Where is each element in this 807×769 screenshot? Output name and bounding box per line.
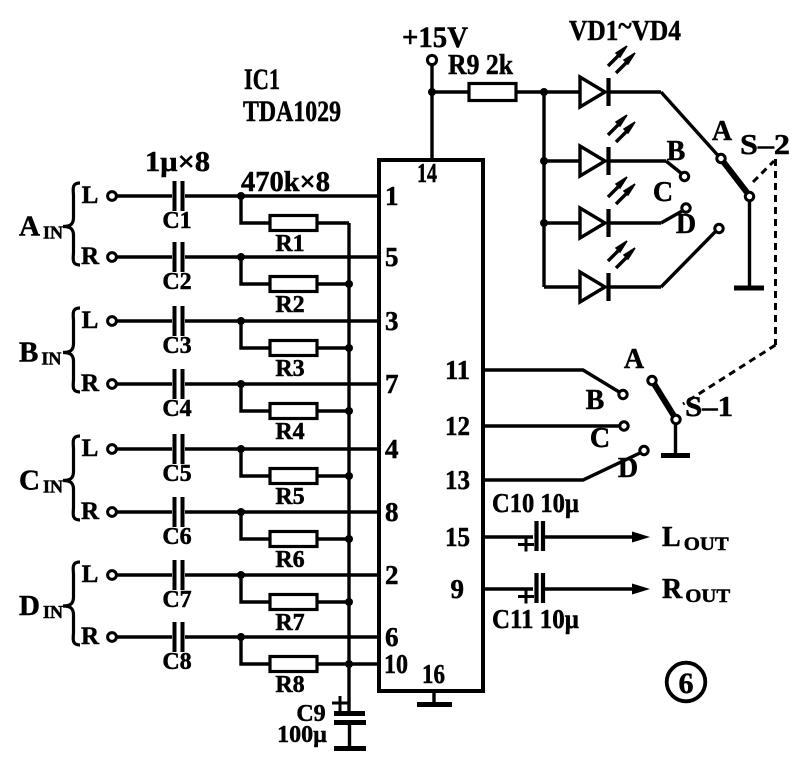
- svg-text:S–2: S–2: [740, 130, 790, 161]
- resistor R2: [270, 277, 317, 319]
- node LED bus VD3: [540, 219, 548, 227]
- wire R1 to bus: [317, 221, 349, 224]
- svg-text:10: 10: [384, 649, 408, 679]
- input terminal CL: [82, 435, 117, 462]
- label TDA1029: [243, 95, 341, 128]
- wire R7 to bus: [317, 600, 349, 603]
- ground under C9: [334, 746, 366, 751]
- label 1u x8: [145, 147, 210, 178]
- node junction BR: [237, 380, 245, 388]
- wire AL row: [117, 194, 380, 197]
- wire tap to R3: [241, 321, 270, 348]
- svg-text:R1: R1: [275, 231, 304, 257]
- resistor R9 2k: [448, 50, 516, 101]
- label S-1: [685, 392, 733, 423]
- input terminal BL: [82, 307, 117, 334]
- switch S-2 pole: [745, 192, 753, 200]
- switch S-1 contact B: [586, 385, 628, 416]
- brace group C: [63, 436, 80, 520]
- wire R5 to bus: [317, 474, 349, 477]
- resistor R6: [270, 532, 317, 574]
- input terminal BR: [81, 370, 116, 397]
- diode VD4 LED: [544, 241, 661, 302]
- capacitor C10: [492, 488, 579, 552]
- svg-text:L: L: [82, 561, 99, 588]
- wire pin 9 to C11: [483, 587, 533, 590]
- brace group D: [63, 562, 80, 645]
- svg-text:12: 12: [445, 411, 470, 441]
- node junction AL: [237, 192, 245, 200]
- wire R3 to bus: [317, 346, 349, 349]
- wire tap to R5: [241, 449, 270, 476]
- wire S-2 pole to ground: [748, 201, 751, 287]
- diode VD1 LED: [544, 46, 661, 107]
- label D IN: [19, 590, 63, 622]
- pin 4 label: [385, 434, 399, 464]
- capacitor C2: [162, 242, 191, 295]
- svg-text:S–1: S–1: [685, 392, 733, 423]
- label S-2: [740, 130, 790, 161]
- wire tap to R2: [241, 257, 270, 284]
- diode VD3 LED: [544, 177, 661, 238]
- svg-text:R: R: [81, 243, 100, 270]
- svg-text:8: 8: [385, 497, 399, 527]
- label C IN: [19, 465, 63, 497]
- wire tap to R1: [241, 196, 270, 223]
- wire R2 to bus: [317, 282, 349, 285]
- capacitor C5: [162, 434, 191, 487]
- label L OUT: [662, 522, 729, 555]
- resistor R1: [270, 216, 317, 258]
- svg-text:R7: R7: [275, 610, 304, 636]
- wire VD2 to S-2 contact B: [666, 161, 682, 174]
- pin 6 label: [385, 622, 399, 652]
- capacitor C6: [162, 497, 191, 550]
- wire CR row: [117, 510, 380, 513]
- wire VD3 to S-2 contact C: [661, 211, 683, 224]
- svg-text:A: A: [624, 344, 645, 375]
- svg-text:470k×8: 470k×8: [241, 167, 330, 198]
- input terminal CR: [81, 498, 116, 525]
- switch S-2 contact D: [676, 209, 723, 240]
- label A IN: [19, 211, 63, 243]
- label VD1~VD4: [569, 11, 681, 47]
- capacitor C9: [277, 696, 366, 748]
- ground S-1: [661, 453, 690, 458]
- wire tap to R8: [241, 637, 270, 664]
- svg-text:C: C: [653, 177, 673, 208]
- wire tap to R6: [241, 512, 270, 539]
- svg-text:C3: C3: [162, 333, 191, 359]
- svg-text:R: R: [81, 370, 100, 397]
- svg-text:R3: R3: [275, 356, 304, 382]
- svg-text:11: 11: [445, 355, 470, 385]
- svg-text:100µ: 100µ: [277, 722, 327, 748]
- pin 14 label: [417, 158, 437, 188]
- pin 9 label: [451, 574, 465, 604]
- switch S-1 pole: [672, 415, 680, 423]
- switch S-2 contact A: [712, 116, 733, 163]
- node bus junction R3: [345, 344, 353, 352]
- svg-text:6: 6: [679, 667, 694, 700]
- wire +15V to pin 14: [430, 65, 433, 161]
- power terminal +15V: [427, 55, 436, 64]
- svg-text:B: B: [586, 385, 605, 416]
- svg-text:4: 4: [385, 434, 399, 464]
- svg-text:R5: R5: [275, 484, 304, 510]
- svg-text:A: A: [712, 116, 733, 147]
- svg-text:L: L: [82, 182, 99, 209]
- wire VD4 to S-2 contact D: [661, 231, 716, 287]
- node bus junction R2: [345, 280, 353, 288]
- wire DL row: [117, 573, 380, 576]
- label 470k x8: [241, 167, 330, 198]
- svg-text:1µ×8: 1µ×8: [145, 147, 210, 178]
- resistor R3: [270, 341, 317, 383]
- capacitor C7: [162, 560, 191, 613]
- svg-text:7: 7: [385, 369, 399, 399]
- resistor R7: [270, 595, 317, 637]
- pin 13 label: [445, 465, 470, 495]
- pin 3 label: [385, 306, 399, 336]
- svg-text:R4: R4: [275, 419, 304, 445]
- ground pin 16: [417, 702, 452, 707]
- svg-text:16: 16: [422, 659, 445, 689]
- node junction CL: [237, 445, 245, 453]
- wire mechanical link dashed: [683, 159, 776, 404]
- svg-text:R6: R6: [275, 547, 304, 573]
- wire C9 to ground: [348, 725, 351, 747]
- svg-text:C10 10µ: C10 10µ: [492, 488, 579, 518]
- svg-text:5: 5: [385, 242, 399, 272]
- ground S-2: [734, 286, 764, 291]
- wire R4 to bus: [317, 409, 349, 412]
- wire VD1 to S-2 contact A: [661, 92, 718, 156]
- svg-text:TDA1029: TDA1029: [243, 95, 341, 128]
- switch S-2 lever: [724, 162, 748, 193]
- switch S-1 lever: [655, 385, 675, 417]
- label +15V: [402, 21, 468, 54]
- node junction BL: [237, 317, 245, 325]
- wire bias bus: [347, 223, 350, 711]
- svg-text:D: D: [618, 453, 638, 484]
- wire AR row: [117, 255, 380, 258]
- pin 12 label: [445, 411, 470, 441]
- op-amp U1 IC1 TDA1029 body: [379, 160, 483, 691]
- svg-text:C1: C1: [162, 208, 191, 234]
- resistor R8: [270, 657, 317, 699]
- svg-text:2: 2: [385, 560, 399, 590]
- wire tap to R4: [241, 384, 270, 411]
- node bus junction R5: [345, 472, 353, 480]
- wire R9 to LED bus: [516, 90, 544, 93]
- node LED bus VD2: [540, 157, 548, 165]
- capacitor C1: [162, 181, 191, 234]
- svg-text:R8: R8: [275, 672, 304, 698]
- pin 8 label: [385, 497, 399, 527]
- node bus junction R4: [345, 407, 353, 415]
- brace group A: [63, 183, 80, 265]
- switch S-1 contact D: [618, 446, 648, 484]
- label IC1: [244, 63, 280, 96]
- brace group B: [63, 308, 80, 392]
- svg-text:13: 13: [445, 465, 470, 495]
- switch S-1 contact A: [624, 344, 656, 385]
- svg-text:C5: C5: [162, 461, 191, 487]
- svg-text:IC1: IC1: [244, 63, 280, 96]
- wire pin 11 to S-1 contact B: [483, 370, 620, 393]
- wire C10 to LOUT arrow: [545, 532, 650, 543]
- wire to R9: [432, 90, 469, 93]
- svg-text:3: 3: [385, 306, 399, 336]
- pin 10 label: [384, 649, 408, 679]
- svg-text:L: L: [82, 435, 99, 462]
- node junction DL: [237, 571, 245, 579]
- svg-text:C6: C6: [162, 524, 191, 550]
- input terminal AR: [81, 243, 116, 270]
- node bus junction R7: [345, 598, 353, 606]
- wire BR row: [117, 382, 380, 385]
- pin 1 label: [385, 181, 399, 211]
- switch S-2 contact C: [653, 177, 690, 212]
- svg-text:C2: C2: [162, 269, 191, 295]
- node bus junction R8: [345, 660, 353, 668]
- svg-text:R: R: [81, 498, 100, 525]
- wire C11 to ROUT arrow: [545, 584, 650, 595]
- svg-text:C8: C8: [162, 649, 191, 675]
- svg-text:6: 6: [385, 622, 399, 652]
- wire DR row: [117, 635, 380, 638]
- svg-text:D: D: [676, 209, 696, 240]
- node junction DR: [237, 633, 245, 641]
- node junction AR: [237, 253, 245, 261]
- svg-text:1: 1: [385, 181, 399, 211]
- pin 2 label: [385, 560, 399, 590]
- wire S-1 pole to ground: [674, 424, 677, 454]
- pin 11 label: [445, 355, 470, 385]
- pin 16 label: [422, 659, 445, 689]
- wire R8 to bus: [317, 662, 379, 665]
- node LED bus top: [540, 88, 548, 96]
- label B IN: [19, 337, 61, 369]
- resistor R5: [270, 469, 317, 511]
- svg-text:R: R: [81, 623, 100, 650]
- label R OUT: [662, 574, 731, 607]
- wire pin 15 to C10: [483, 535, 533, 538]
- svg-text:R2: R2: [275, 292, 304, 318]
- svg-text:C11 10µ: C11 10µ: [492, 604, 579, 634]
- svg-text:14: 14: [417, 158, 437, 188]
- wire R6 to bus: [317, 537, 349, 540]
- wire CL row: [117, 447, 380, 450]
- svg-text:R9 2k: R9 2k: [448, 50, 513, 81]
- svg-text:9: 9: [451, 574, 465, 604]
- diode VD2 LED: [544, 115, 666, 176]
- pin 7 label: [385, 369, 399, 399]
- switch S-2 contact B: [667, 136, 689, 181]
- figure number 6: [667, 663, 706, 702]
- node bus junction R6: [345, 535, 353, 543]
- wire pin 13 to S-1 contact D: [483, 453, 641, 481]
- svg-text:B: B: [667, 136, 686, 167]
- input terminal DR: [81, 623, 116, 650]
- wire pin16 stub: [432, 691, 435, 703]
- node junction CR: [237, 508, 245, 516]
- capacitor C8: [162, 622, 191, 675]
- pin 5 label: [385, 242, 399, 272]
- input terminal DL: [82, 561, 117, 588]
- wire tap to R7: [241, 575, 270, 602]
- capacitor C4: [162, 369, 191, 422]
- wire BL row: [117, 319, 380, 322]
- resistor R4: [270, 404, 317, 446]
- wire pin 12 to S-1 contact C: [483, 424, 620, 427]
- node +15V junction: [428, 88, 436, 96]
- svg-text:C: C: [590, 423, 610, 454]
- svg-text:C4: C4: [162, 396, 191, 422]
- input terminal AL: [82, 182, 117, 209]
- svg-text:15: 15: [445, 522, 470, 552]
- svg-text:L: L: [82, 307, 99, 334]
- svg-text:C7: C7: [162, 587, 191, 613]
- pin 15 label: [445, 522, 470, 552]
- switch S-1 contact C: [590, 422, 628, 454]
- svg-text:VD1~VD4: VD1~VD4: [569, 11, 681, 47]
- wire LED bus: [542, 92, 545, 287]
- capacitor C11: [492, 573, 579, 634]
- capacitor C3: [162, 306, 191, 359]
